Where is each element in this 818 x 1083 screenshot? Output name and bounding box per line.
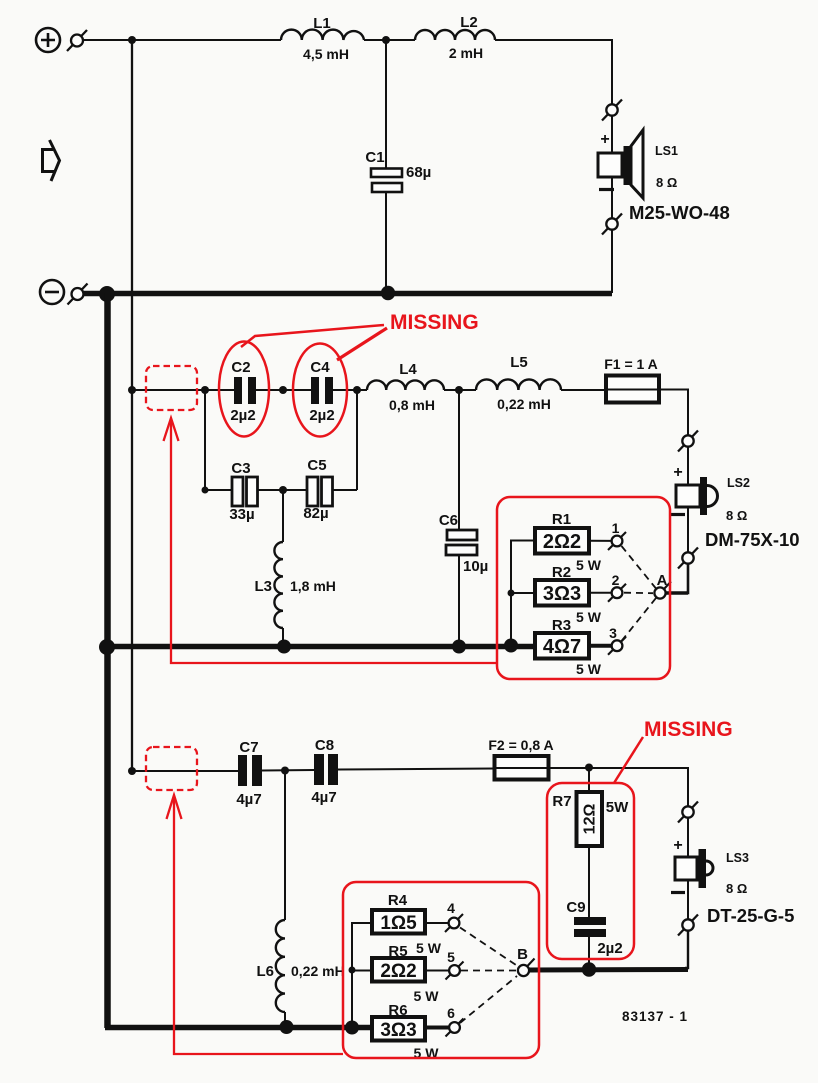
wire xyxy=(364,39,415,41)
selector dashed wire 1-A xyxy=(622,546,657,589)
terminal 3 xyxy=(608,625,626,655)
capacitor C9 xyxy=(566,899,622,963)
svg-text:2µ2: 2µ2 xyxy=(309,407,334,424)
svg-text:2Ω2: 2Ω2 xyxy=(380,961,416,982)
junction xyxy=(353,386,361,394)
junction (plus rail / mid feed) xyxy=(128,36,136,44)
svg-text:4µ7: 4µ7 xyxy=(236,791,261,808)
selector dashed wire 6-B xyxy=(460,976,517,1023)
svg-text:1Ω5: 1Ω5 xyxy=(380,913,417,934)
junction (R feed / mid bus) xyxy=(504,639,518,653)
svg-text:M25-WO-48: M25-WO-48 xyxy=(629,202,730,223)
svg-text:R1: R1 xyxy=(552,511,571,528)
svg-text:C3: C3 xyxy=(231,460,250,477)
svg-text:F2 = 0,8 A: F2 = 0,8 A xyxy=(488,737,553,753)
terminal - (input minus) xyxy=(40,280,64,304)
node A xyxy=(654,572,688,599)
red ellipse around C2 xyxy=(219,342,269,437)
svg-text:C6: C6 xyxy=(439,512,458,529)
bus wire (minus bus horizontal) xyxy=(84,291,612,297)
wire xyxy=(611,177,613,218)
resistor R1 xyxy=(535,511,612,573)
red leader line to C2 xyxy=(241,325,384,347)
svg-text:1,8 mH: 1,8 mH xyxy=(290,578,336,594)
svg-text:8 Ω: 8 Ω xyxy=(726,881,747,896)
speaker LS3 minus mark xyxy=(671,891,685,894)
bus wire (bottom return bus) xyxy=(105,1025,372,1031)
svg-text:83137 - 1: 83137 - 1 xyxy=(622,1009,688,1024)
connector (LS1 minus lead) xyxy=(602,214,622,235)
svg-text:+: + xyxy=(673,464,682,481)
junction (C6 tap) xyxy=(455,386,463,394)
wire xyxy=(611,116,613,153)
svg-text:4: 4 xyxy=(447,900,455,916)
capacitor C5 xyxy=(283,390,357,522)
capacitor C4 xyxy=(309,359,334,424)
svg-text:0,22 mH: 0,22 mH xyxy=(291,963,345,979)
capacitor C1 xyxy=(365,40,431,291)
svg-text:C2: C2 xyxy=(231,359,250,376)
speaker LS1 xyxy=(598,130,643,198)
wire xyxy=(262,769,314,772)
svg-text:DM-75X-10: DM-75X-10 xyxy=(705,529,800,550)
red box around R7/C9 xyxy=(547,783,634,959)
svg-text:C5: C5 xyxy=(307,457,326,474)
svg-text:+: + xyxy=(600,131,609,148)
svg-text:MISSING: MISSING xyxy=(644,718,733,741)
resistor R3 xyxy=(535,617,612,677)
svg-text:DT-25-G-5: DT-25-G-5 xyxy=(707,905,794,926)
svg-text:L2: L2 xyxy=(460,14,478,31)
inductor L1 xyxy=(281,15,364,62)
svg-text:68µ: 68µ xyxy=(406,164,431,181)
inductor L6 xyxy=(256,771,344,1027)
selector dashed wire 3-A xyxy=(622,598,657,641)
svg-text:4,5 mH: 4,5 mH xyxy=(303,46,349,62)
svg-text:8 Ω: 8 Ω xyxy=(656,175,677,190)
wire xyxy=(659,390,688,436)
svg-text:5 W: 5 W xyxy=(576,557,602,573)
svg-text:5 W: 5 W xyxy=(576,609,602,625)
selector dashed wire 4-B xyxy=(460,928,518,967)
resistor R2 xyxy=(535,564,612,625)
junction xyxy=(201,386,209,394)
wire (to LS1) xyxy=(495,40,612,105)
junction (C9 / B wire) xyxy=(582,962,596,976)
wire xyxy=(132,770,238,772)
svg-text:C8: C8 xyxy=(315,737,334,754)
speaker LS1 minus mark xyxy=(599,188,614,191)
terminal + (input plus) xyxy=(36,28,60,52)
wire xyxy=(338,769,494,770)
red leader line to C4 xyxy=(337,328,387,360)
capacitor C3 xyxy=(205,390,283,523)
svg-text:3Ω3: 3Ω3 xyxy=(543,583,581,605)
svg-text:2: 2 xyxy=(612,572,620,588)
fuse F2 xyxy=(488,737,553,780)
bus wire (mid return bus) xyxy=(107,644,535,650)
connector (LS2 plus lead) xyxy=(678,431,698,452)
svg-text:LS1: LS1 xyxy=(655,144,678,158)
junction (R feed / bottom bus) xyxy=(345,1021,359,1035)
svg-text:B: B xyxy=(517,946,528,963)
svg-text:LS3: LS3 xyxy=(726,851,749,865)
svg-text:L4: L4 xyxy=(399,361,417,378)
junction xyxy=(279,386,287,394)
red leader line to R7 box xyxy=(614,737,643,783)
fuse F1 xyxy=(604,356,659,403)
junction xyxy=(279,486,287,494)
resistor R7 xyxy=(552,768,629,918)
wire xyxy=(333,389,367,391)
input signal arrow symbol xyxy=(43,140,60,181)
junction (C6 / mid bus) xyxy=(452,640,466,654)
bus wire (left vertical bus) xyxy=(104,293,111,1028)
terminal 2 xyxy=(608,572,626,602)
svg-text:1: 1 xyxy=(612,520,620,536)
resistor R6 xyxy=(372,1002,449,1061)
selector dashed wire 2-A xyxy=(624,592,653,595)
junction (R5 feed) xyxy=(349,967,356,974)
svg-text:0,8 mH: 0,8 mH xyxy=(389,397,435,413)
junction (R2 feed) xyxy=(508,590,515,597)
svg-text:R4: R4 xyxy=(388,892,408,909)
wire xyxy=(256,389,311,391)
svg-text:6: 6 xyxy=(447,1005,455,1021)
red dashed box (missing part, mid) xyxy=(146,366,197,410)
red arrow to mid dashed box xyxy=(164,418,498,663)
wire xyxy=(561,389,606,391)
svg-text:2µ2: 2µ2 xyxy=(597,940,622,957)
speaker LS2 xyxy=(676,477,718,515)
svg-text:MISSING: MISSING xyxy=(390,311,479,334)
svg-text:33µ: 33µ xyxy=(229,506,254,523)
svg-text:5: 5 xyxy=(447,949,455,965)
speaker LS3 xyxy=(675,849,713,888)
junction (L6 / bottom bus) xyxy=(280,1020,294,1034)
junction (C1 / minus bus) xyxy=(381,286,395,300)
svg-text:R5: R5 xyxy=(388,943,407,960)
capacitor C8 xyxy=(311,737,338,806)
wire xyxy=(611,230,613,293)
wire (R4-R6 feed line) xyxy=(352,923,372,1028)
junction (R7 tap) xyxy=(585,764,593,772)
junction xyxy=(202,487,209,494)
junction (minus bus / left bus) xyxy=(99,286,115,302)
svg-text:R3: R3 xyxy=(552,617,571,634)
svg-text:L1: L1 xyxy=(313,15,331,32)
svg-text:3Ω3: 3Ω3 xyxy=(380,1020,416,1041)
terminal 5 xyxy=(446,949,464,980)
svg-text:F1 = 1 A: F1 = 1 A xyxy=(604,356,658,372)
svg-text:L5: L5 xyxy=(510,354,528,371)
inductor L4 xyxy=(367,361,444,413)
svg-text:10µ: 10µ xyxy=(463,558,488,575)
capacitor C6 xyxy=(439,390,489,646)
wire (R1-R3 feed line) xyxy=(511,541,535,647)
terminal 4 xyxy=(445,900,463,932)
svg-text:+: + xyxy=(673,837,682,854)
svg-text:2µ2: 2µ2 xyxy=(230,407,255,424)
wire xyxy=(687,818,689,857)
svg-text:5 W: 5 W xyxy=(414,988,440,1004)
svg-text:L3: L3 xyxy=(254,578,272,595)
junction (tweeter feed) xyxy=(128,767,136,775)
svg-text:4µ7: 4µ7 xyxy=(311,789,336,806)
capacitor C2 xyxy=(230,359,256,424)
speaker LS2 minus mark xyxy=(671,513,685,516)
svg-text:R7: R7 xyxy=(552,793,571,810)
red arrow to bottom dashed box xyxy=(167,795,344,1054)
svg-text:LS2: LS2 xyxy=(727,476,750,490)
wire (B output, thick) xyxy=(529,967,688,973)
svg-text:L6: L6 xyxy=(256,963,274,980)
svg-text:8 Ω: 8 Ω xyxy=(726,508,747,523)
node B xyxy=(517,946,534,976)
inductor L3 xyxy=(254,490,335,646)
svg-text:12Ω: 12Ω xyxy=(582,804,599,835)
svg-text:5W: 5W xyxy=(606,799,629,816)
inductor L2 xyxy=(415,14,495,61)
svg-text:3: 3 xyxy=(609,625,617,641)
selector dashed wire 5-B xyxy=(461,970,516,972)
connector (minus input lead) xyxy=(68,284,88,305)
svg-text:82µ: 82µ xyxy=(303,505,328,522)
junction (left bus / mid bus) xyxy=(99,639,115,655)
capacitor C7 xyxy=(236,739,262,808)
junction (mid feed) xyxy=(128,386,136,394)
wire xyxy=(687,880,689,920)
wire xyxy=(132,389,234,391)
wire xyxy=(666,564,688,594)
connector (LS3 minus lead) xyxy=(678,915,698,936)
red ellipse around C4 xyxy=(293,344,347,437)
connector (LS2 minus lead) xyxy=(678,548,698,569)
svg-text:C1: C1 xyxy=(365,149,384,166)
connector (LS1 plus lead) xyxy=(602,100,622,121)
svg-text:0,22 mH: 0,22 mH xyxy=(497,396,551,412)
red dashed box (missing part, bottom) xyxy=(146,747,197,790)
svg-text:5 W: 5 W xyxy=(416,940,442,956)
wire xyxy=(549,768,688,806)
red box around R4-R6 network xyxy=(343,882,539,1058)
wire xyxy=(687,507,689,553)
svg-text:5 W: 5 W xyxy=(576,661,602,677)
svg-text:4Ω7: 4Ω7 xyxy=(543,636,581,658)
connector (LS3 plus lead) xyxy=(678,802,698,823)
resistor R4 xyxy=(372,892,449,956)
resistor R5 xyxy=(372,943,449,1004)
junction (L6 tap) xyxy=(281,767,289,775)
svg-text:C7: C7 xyxy=(239,739,258,756)
red box around R1-R3 network xyxy=(497,497,670,679)
svg-text:2Ω2: 2Ω2 xyxy=(543,531,581,553)
wire xyxy=(687,447,689,485)
svg-text:R2: R2 xyxy=(552,564,571,581)
junction (L3 / mid bus) xyxy=(277,640,291,654)
svg-text:R6: R6 xyxy=(388,1002,407,1019)
wire (plus rail top) xyxy=(83,39,281,41)
wire (mid/tweeter feed, vertical) xyxy=(131,40,133,771)
inductor L5 xyxy=(476,354,561,412)
svg-text:A: A xyxy=(657,572,668,589)
wire xyxy=(444,389,476,391)
junction (C1 tap) xyxy=(382,36,390,44)
svg-text:C9: C9 xyxy=(566,899,585,916)
connector (plus input lead) xyxy=(67,30,87,51)
terminal 6 xyxy=(446,1005,464,1037)
svg-text:C4: C4 xyxy=(310,359,330,376)
terminal 1 xyxy=(608,520,626,550)
wire xyxy=(685,931,688,969)
svg-text:2 mH: 2 mH xyxy=(449,45,483,61)
